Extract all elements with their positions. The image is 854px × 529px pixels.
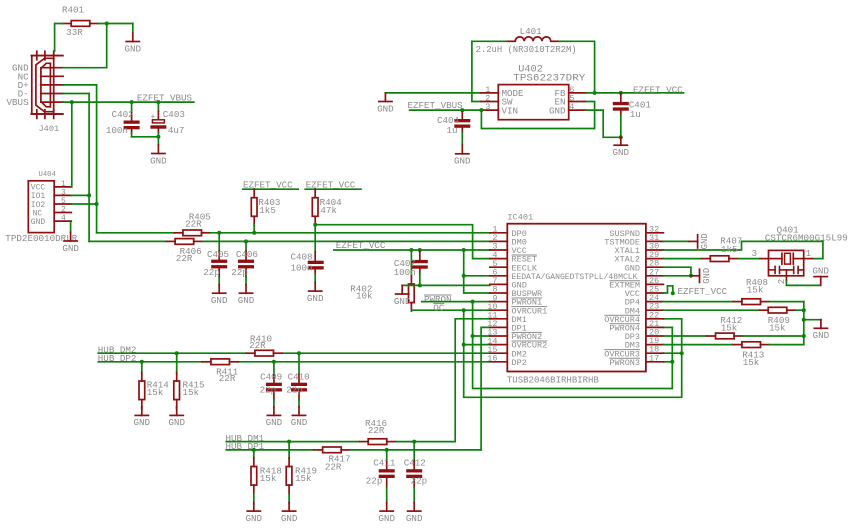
ground below C403: [150, 137, 167, 167]
svg-text:GND: GND: [211, 295, 228, 306]
junction RESET branch: [313, 223, 317, 227]
wire pin20 DP3: [663, 335, 706, 337]
capacitor C410: [286, 353, 309, 407]
wire GND branch: [804, 319, 821, 321]
wire pin14 to OC: [464, 344, 490, 346]
svg-text:PWRON3: PWRON3: [609, 358, 640, 368]
wire VBUS to VIN: [410, 109, 482, 111]
capacitor C409: [260, 362, 283, 407]
wire DP0 rail left: [97, 232, 175, 234]
wire DP1 from pin12: [481, 327, 490, 450]
wire pin24 DP4: [663, 301, 733, 303]
svg-text:15k: 15k: [721, 322, 738, 333]
svg-text:GND: GND: [266, 417, 283, 428]
wire VBUS net: [63, 101, 194, 103]
svg-text:33R: 33R: [66, 27, 83, 38]
wire VCC chain down: [464, 250, 490, 276]
net label HUB_DP1: [226, 441, 265, 452]
ground below C405: [211, 285, 228, 306]
svg-text:EZFET_VCC: EZFET_VCC: [678, 286, 728, 297]
svg-text:VBUS: VBUS: [7, 97, 30, 108]
net label EZFET_UCC (right): [633, 84, 683, 95]
junction VBUS to U404: [70, 100, 74, 104]
capacitor C406: [231, 241, 258, 284]
capacitor C408: [291, 251, 324, 282]
wire DM0 rail left: [89, 240, 166, 242]
svg-text:L401: L401: [520, 26, 543, 37]
ground rotated pin31: [689, 233, 710, 249]
wire J401 shield to R401: [55, 24, 64, 52]
svg-text:C408: C408: [291, 251, 313, 262]
svg-text:CSTCR6M00G15L99: CSTCR6M00G15L99: [765, 232, 848, 243]
svg-text:R401: R401: [62, 5, 85, 16]
junction FB at L401: [593, 91, 597, 95]
wire HUB_DP1 right: [351, 449, 482, 451]
svg-text:GND: GND: [454, 156, 471, 167]
svg-text:47k: 47k: [320, 205, 337, 216]
svg-text:1k5: 1k5: [721, 244, 738, 255]
resistor R409: [760, 307, 796, 333]
wire pin28 GND: [663, 267, 691, 276]
inductor L401: [476, 26, 577, 55]
ground below R419: [281, 503, 298, 524]
junction VCC chain pin6: [462, 274, 466, 278]
wire R408 to GND rail: [769, 301, 803, 303]
wire L401 left to SW: [472, 41, 507, 101]
svg-text:J401: J401: [39, 124, 60, 134]
svg-text:22p: 22p: [286, 385, 303, 396]
wire R402 to IC pin10: [411, 309, 489, 311]
junction DP2 at C409: [272, 360, 276, 364]
svg-text:IC401: IC401: [507, 213, 533, 223]
resistor R410: [246, 333, 282, 356]
wire OC vertical: [464, 310, 682, 397]
svg-text:15k: 15k: [295, 473, 312, 484]
wire GND rail vertical: [803, 302, 805, 345]
wire FB to VCC: [586, 92, 684, 94]
net label EZFET_VBUS (left): [137, 93, 193, 104]
ground above Q401 pin2 wire: [812, 265, 829, 285]
svg-text:22p: 22p: [260, 385, 277, 396]
junction VCC at chain: [462, 248, 466, 252]
junction DM2 at C410: [297, 351, 301, 355]
junction DP0 at C405: [217, 231, 221, 235]
wire DM1 from pin11: [455, 319, 490, 442]
ground below C410: [291, 407, 308, 428]
svg-text:C412: C412: [404, 458, 426, 469]
ground below R418: [246, 503, 263, 524]
junction PWRON pin13: [471, 334, 475, 338]
junction GND rail pin20: [802, 334, 806, 338]
svg-text:15k: 15k: [260, 473, 277, 484]
svg-text:GND: GND: [31, 218, 46, 227]
svg-text:15k: 15k: [183, 387, 200, 398]
capacitor C407: [394, 250, 428, 285]
svg-text:GND: GND: [125, 43, 142, 54]
svg-text:4: 4: [61, 214, 66, 223]
junction C403 bottom: [156, 135, 160, 139]
svg-text:22p: 22p: [231, 267, 248, 278]
wire pin31 TSTMODE: [663, 240, 689, 242]
wire pin29 XTAL2 to R407: [663, 258, 701, 260]
wire HUB_DM1 left: [226, 441, 359, 443]
wire VCC net to IC pin3: [334, 249, 490, 251]
ground below C404: [454, 145, 471, 166]
junction pin27/28: [689, 274, 693, 278]
svg-text:2.2uH (NR3010T2R2M): 2.2uH (NR3010T2R2M): [476, 44, 577, 55]
svg-text:100n: 100n: [291, 263, 313, 274]
svg-text:22p: 22p: [411, 476, 428, 487]
net label EZFET_UCC (pin25): [663, 286, 727, 297]
wire R404 to C408: [314, 225, 316, 252]
wire pin19 DM3: [663, 344, 733, 346]
net label EZFET_UCC (R404): [305, 179, 361, 190]
junction pin9: [471, 300, 475, 304]
junction OC pin14: [462, 343, 466, 347]
net label HUB_DM1: [226, 433, 265, 444]
ground below C401: [613, 137, 630, 158]
junction C407 on GND wire: [418, 283, 422, 287]
junction OC pin18: [680, 351, 684, 355]
wire EN loop: [481, 102, 594, 129]
svg-text:GND: GND: [134, 417, 151, 428]
wire pin18 to OC: [663, 352, 681, 354]
junction DM1 at R419: [287, 440, 291, 444]
svg-text:GND: GND: [62, 243, 79, 254]
wire pin21 to PWRON: [663, 326, 672, 328]
svg-text:100n: 100n: [106, 125, 128, 136]
wire C402 to C403 bottom: [132, 136, 159, 138]
svg-text:GND: GND: [700, 233, 710, 249]
junction VBUS at C404: [460, 108, 464, 112]
net label OC: [433, 303, 445, 314]
wire HUB_DP2 left: [98, 361, 202, 363]
capacitor C412: [404, 442, 427, 503]
wire U404 VCC to VBUS: [70, 102, 73, 187]
wire HUB_DP1 left: [226, 449, 313, 451]
junction DP0 at R403: [252, 231, 256, 235]
junction DP1 at R418: [252, 448, 256, 452]
resistor R403: [251, 189, 280, 233]
wire HUB_DM2 left: [98, 352, 246, 354]
svg-text:GND: GND: [549, 105, 566, 116]
wire DP0 rail right: [211, 232, 490, 234]
svg-text:GND: GND: [291, 417, 308, 428]
svg-text:GND: GND: [238, 295, 255, 306]
wire L401 right to FB: [559, 41, 594, 93]
svg-text:1: 1: [806, 248, 812, 259]
junction pin10: [462, 308, 466, 312]
resistor R417: [314, 447, 351, 473]
resistor R418: [251, 450, 282, 503]
capacitor C411: [366, 450, 396, 503]
junction VBUS at C402: [130, 100, 134, 104]
resistor R419: [286, 442, 317, 503]
resistor R402: [350, 250, 414, 311]
wire VCC chain to pin8: [464, 276, 490, 293]
wire DM0 rail right: [202, 240, 490, 242]
wire R412 to GND rail: [743, 335, 804, 337]
junction VBUS at EN loop: [479, 108, 483, 112]
ground below R414: [134, 407, 151, 428]
IC IC401 TUSB2046: [487, 213, 663, 386]
svg-text:GND: GND: [150, 155, 167, 166]
svg-text:15k: 15k: [769, 322, 786, 333]
resistor R407: [702, 235, 743, 261]
wire GND pin4 route: [586, 110, 621, 137]
junction C401 bottom: [619, 135, 623, 139]
svg-text:22R: 22R: [249, 340, 266, 351]
wire PWRON vertical: [473, 302, 673, 389]
svg-text:1u: 1u: [630, 109, 641, 120]
resistor R405: [174, 212, 210, 236]
svg-text:GND: GND: [406, 513, 423, 524]
svg-text:TPS62237DRY: TPS62237DRY: [513, 72, 585, 84]
junction DM1 at C412: [412, 440, 416, 444]
svg-text:EZFET_VBUS: EZFET_VBUS: [137, 93, 193, 104]
junction VCC at R402: [409, 248, 413, 252]
wire U404 IO1 to D-: [71, 194, 89, 196]
svg-text:4u7: 4u7: [168, 125, 185, 136]
svg-text:22R: 22R: [368, 425, 385, 436]
svg-text:GND: GND: [281, 513, 298, 524]
svg-text:1k5: 1k5: [259, 205, 276, 216]
ground flag U402 MODE: [377, 93, 481, 114]
wire J401 D- down: [63, 94, 89, 242]
junction DM0 at C406: [244, 239, 248, 243]
wire pin13 to PWRON: [473, 335, 490, 337]
svg-text:15k: 15k: [743, 357, 760, 368]
junction VBUS at C403: [156, 100, 160, 104]
svg-text:EZFET_VCC: EZFET_VCC: [633, 84, 683, 95]
svg-text:2: 2: [776, 279, 787, 285]
ground below R415: [168, 407, 185, 428]
resistor R404: [312, 189, 342, 225]
svg-text:22R: 22R: [176, 253, 193, 264]
wire J401 D+ down: [63, 85, 96, 233]
net label EZFET_UCC (R403): [243, 179, 298, 190]
svg-text:16: 16: [487, 354, 497, 364]
net label HUB_DM2: [98, 344, 137, 355]
svg-text:C403: C403: [163, 109, 185, 120]
junction IO2/D+: [95, 202, 99, 206]
svg-text:GND: GND: [246, 513, 263, 524]
capacitor C403 (polarized): [150, 102, 184, 137]
ground rotated pin27: [691, 268, 712, 284]
svg-text:C409: C409: [260, 371, 282, 382]
junction at R401 right: [105, 22, 109, 26]
wire U404 IO2 to D+: [71, 203, 96, 205]
net label PWRON: [424, 294, 452, 305]
wire HUB_DM1 right: [396, 441, 455, 443]
resistor R408: [733, 277, 769, 305]
svg-text:22p: 22p: [203, 267, 220, 278]
connector J401 (USB): [7, 51, 64, 134]
svg-text:C406: C406: [236, 249, 258, 260]
junction DP2 at R414: [140, 360, 144, 364]
capacitor C402: [106, 102, 140, 137]
svg-text:22R: 22R: [219, 373, 236, 384]
wire R407 to Q401 pin3: [738, 258, 760, 260]
svg-text:15k: 15k: [747, 285, 764, 296]
wire R409 to GND rail: [796, 309, 804, 311]
resistor R412: [707, 315, 743, 339]
net label EZFET_VBUS (U402): [408, 100, 464, 111]
svg-text:GND: GND: [613, 147, 630, 158]
svg-text:3: 3: [751, 248, 757, 259]
capacitor C401: [613, 93, 652, 137]
svg-text:VIN: VIN: [502, 105, 519, 116]
wire pin30 XTAL1 to Q401 pin1: [663, 241, 823, 258]
svg-text:GND: GND: [813, 330, 830, 341]
svg-text:10k: 10k: [356, 290, 373, 301]
capacitor C404: [437, 110, 470, 145]
junction GND rail pin23: [802, 308, 806, 312]
ground below C412: [406, 503, 423, 524]
svg-text:GND: GND: [812, 265, 829, 276]
svg-text:DP2: DP2: [512, 358, 527, 368]
svg-text:OC: OC: [433, 303, 445, 314]
wire R401 to GND net: [98, 23, 132, 25]
svg-text:C405: C405: [207, 249, 229, 260]
resistor R415: [174, 353, 205, 408]
svg-text:GND: GND: [377, 103, 394, 114]
svg-text:U404: U404: [39, 171, 56, 179]
resistor R411: [202, 359, 238, 384]
wire DP2 rail to pin16: [238, 361, 489, 363]
resistor R406: [167, 239, 203, 264]
net label HUB_DP2: [98, 353, 137, 364]
svg-text:GND: GND: [307, 293, 324, 304]
svg-text:GND: GND: [702, 268, 712, 284]
svg-text:TUSB2046BIRHBIRHB: TUSB2046BIRHBIRHB: [507, 375, 599, 386]
svg-text:GND: GND: [378, 513, 395, 524]
junction DM2 at R415: [175, 351, 179, 355]
svg-text:C410: C410: [288, 371, 310, 382]
svg-text:17: 17: [649, 353, 659, 363]
resistor R413: [733, 342, 769, 368]
junction VCC at C407: [418, 248, 422, 252]
ground below C408: [307, 283, 324, 304]
svg-text:GND: GND: [394, 296, 411, 307]
ground below U404: [62, 232, 79, 253]
wire RESET to IC pin4: [315, 225, 490, 259]
svg-text:22R: 22R: [185, 219, 202, 230]
svg-text:100n: 100n: [394, 267, 416, 278]
resistor R414: [139, 362, 169, 408]
junction DP1 at C411: [385, 448, 389, 452]
ground right of GND rail: [813, 320, 830, 341]
capacitor C405: [203, 233, 229, 285]
svg-text:22R: 22R: [325, 462, 342, 473]
junction GND rail branch: [802, 318, 806, 322]
svg-text:22p: 22p: [366, 476, 383, 487]
svg-text:1u: 1u: [447, 125, 458, 136]
svg-text:C402: C402: [112, 109, 134, 120]
wire pin17 to PWRON: [663, 361, 672, 363]
ground at pin7 wire: [394, 285, 411, 306]
junction FB at C401: [619, 91, 623, 95]
wire U404 GND: [70, 221, 72, 232]
wire pin22 to OC: [663, 318, 681, 320]
wire IC pin7 GND: [402, 284, 490, 286]
wire pin27: [663, 275, 691, 277]
svg-text:C411: C411: [373, 458, 396, 469]
wire GND net to J401 GND pin: [63, 24, 106, 68]
svg-text:15k: 15k: [147, 387, 164, 398]
wire Q401 pin2 to GND: [786, 276, 820, 286]
svg-text:4: 4: [569, 102, 574, 112]
junction IO1/D-: [87, 193, 91, 197]
wire PWRON to pin9: [422, 301, 490, 303]
resistor R401: [62, 5, 98, 39]
ground near R401: [125, 24, 142, 55]
wire pin23 DM4: [663, 309, 759, 311]
ground below C411: [378, 503, 395, 524]
svg-text:3: 3: [485, 102, 490, 112]
resistor R416: [360, 418, 396, 445]
svg-text:GND: GND: [168, 417, 185, 428]
net label EZFET_UCC (mid): [336, 240, 386, 251]
regulator U402 TPS62237: [481, 63, 586, 119]
ground below C409: [266, 407, 283, 428]
resonator Q401 CSTCR6M00G: [751, 224, 847, 284]
wire DM2 rail to pin15: [282, 352, 490, 354]
junction PWRON pin17: [670, 360, 674, 364]
ESD IC U404 TPD2E001: [5, 171, 77, 244]
wire R413 to GND rail: [769, 344, 803, 346]
ground below C406: [238, 285, 255, 306]
